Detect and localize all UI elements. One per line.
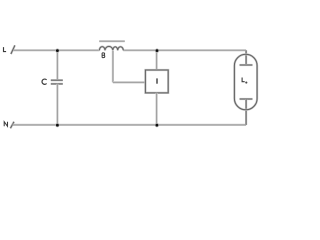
wire: top rail right of inductor: [123, 49, 246, 51]
capacitor C label: [42, 79, 47, 84]
capacitor C bottom plate: [51, 83, 63, 85]
lamp La envelope: [234, 54, 257, 110]
wire: top rail to ignitor: [156, 50, 158, 70]
ignitor I label: [156, 78, 158, 83]
junction dot top-ignitor: [155, 49, 159, 53]
capacitor C top plate: [51, 79, 63, 81]
lamp La label: [242, 78, 247, 84]
wire: capacitor lower branch: [56, 84, 58, 125]
junction dot bottom-capacitor: [55, 123, 59, 127]
wire: ignitor to bottom rail: [156, 93, 158, 125]
inductor B label: [102, 53, 105, 58]
ignitor I box: [145, 70, 168, 93]
lamp bottom electrode: [240, 98, 253, 100]
wire: top rail left of inductor: [14, 49, 100, 51]
junction dot top-capacitor: [55, 49, 59, 53]
wire: tap to ignitor: [113, 81, 145, 83]
wire: tap from inductor down: [112, 51, 114, 83]
inductor B core bar: [99, 40, 125, 42]
node N (neutral terminal label): [4, 122, 7, 127]
lamp top electrode: [240, 64, 253, 66]
wire: capacitor upper branch: [56, 50, 58, 80]
node L (phase terminal label): [4, 47, 7, 52]
lamp bottom lead: [245, 99, 247, 125]
terminal slash at N: [10, 122, 14, 129]
inductor B windings: [99, 46, 123, 50]
terminal slash at L: [11, 45, 15, 54]
wire: bottom rail: [13, 124, 247, 126]
junction dot bottom-ignitor: [155, 123, 159, 127]
lamp top lead: [245, 50, 247, 65]
